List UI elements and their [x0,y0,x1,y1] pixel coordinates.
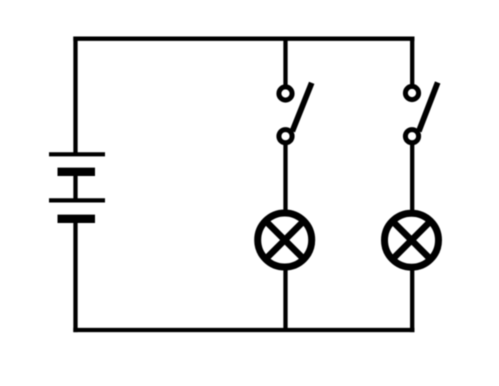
wire left vertical lower [73,219,77,332]
wire right vertical from lamp 2 to bottom rail [410,268,414,332]
switch S1 top contact [279,87,292,100]
lamp L2 cross stroke 2 [392,221,430,259]
lamp L2 envelope [385,213,439,267]
lamp L2 (circle with cross) [385,213,439,267]
wire bottom rail [73,328,414,332]
battery cell 1 negative plate [58,168,96,176]
wire branch 1 from top rail to switch 1 [283,39,287,88]
wire right vertical from top rail to switch 2 [410,37,414,87]
switch S2 (open SPST) [405,82,437,142]
lamp L1 (circle with cross) [258,213,312,267]
lamp L1 envelope [258,213,312,267]
switch S2 top contact [405,86,418,99]
wire branch 1 from switch 1 to lamp 1 [283,143,287,213]
switch S2 blade [419,82,438,131]
wire top rail [73,37,414,41]
switch S2 bottom contact [405,130,418,143]
battery cell 2 positive plate [49,198,105,202]
lamp L2 cross stroke 1 [392,221,430,259]
battery cell 2 negative plate [58,215,96,223]
lamp L1 cross stroke 2 [266,221,304,259]
switch S1 blade [292,83,311,132]
lamp L1 cross stroke 1 [266,221,304,259]
wire battery inter-cell connector [73,172,77,201]
wire right vertical from switch 2 to lamp 2 [410,143,414,213]
switch S1 (open SPST) [279,83,312,143]
switch S1 bottom contact [279,130,292,143]
battery cell 1 positive plate [49,152,105,156]
wire left vertical upper [73,37,77,154]
wire branch 1 from lamp 1 to bottom rail [283,268,287,330]
